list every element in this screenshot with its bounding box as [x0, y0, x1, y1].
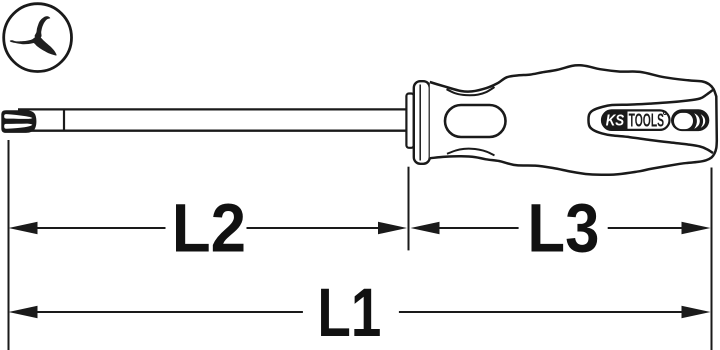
svg-text:L1: L1: [317, 275, 381, 350]
L2 dimension line: [36, 227, 379, 229]
svg-text:L3: L3: [527, 189, 599, 266]
tip/shaft boundary line: [63, 110, 65, 131]
right extension line: [711, 168, 713, 350]
middle extension line: [408, 167, 410, 251]
svg-text:L2: L2: [172, 190, 246, 267]
end cap seam: [588, 90, 713, 154]
tri-wing symbol blades: [10, 16, 57, 55]
L2 right arrowhead: [378, 222, 407, 235]
registered mark: [663, 111, 666, 114]
KS black box: [602, 111, 627, 130]
L2 left arrowhead: [9, 222, 38, 235]
ferrule ring inner line: [419, 85, 421, 161]
L1 right arrowhead: [682, 306, 711, 319]
L3 left arrowhead: [411, 222, 440, 235]
pill arc 1: [694, 113, 700, 129]
drive-type symbol circle: [4, 4, 72, 72]
shaft top line: [18, 108, 406, 110]
KS TOOLS logo stadium: [602, 110, 670, 129]
front oval slot: [445, 105, 506, 137]
logo black pill: [671, 109, 709, 131]
pill white ellipse: [674, 113, 693, 129]
grip ridge top crescent: [447, 87, 495, 95]
pill arc 2: [701, 114, 706, 127]
left extension line: [8, 140, 10, 350]
shaft bottom line: [18, 130, 406, 132]
L3 right arrowhead: [682, 222, 711, 235]
screwdriver tip (torx bit): [1, 110, 36, 133]
grip ridge bottom crescent: [447, 149, 495, 156]
ferrule collar: [406, 94, 413, 148]
L3 dimension line: [440, 227, 683, 229]
L1 dimension line: [36, 311, 682, 313]
handle outline: [430, 65, 717, 175]
svg-text:TOOLS: TOOLS: [629, 111, 665, 131]
svg-text:KS: KS: [606, 113, 625, 130]
tip lower flute: [4, 124, 32, 129]
L1 left arrowhead: [9, 306, 38, 319]
ferrule ring: [414, 81, 430, 164]
tip upper flute: [4, 114, 32, 119]
